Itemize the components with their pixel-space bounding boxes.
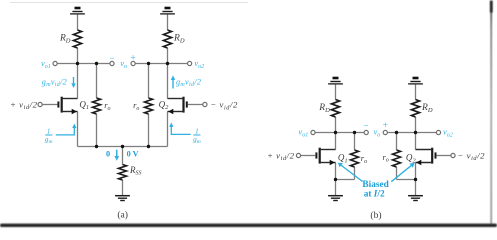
wire source-to-ro1 (b) [336, 179, 355, 181]
wire output node row left (a) [55, 63, 112, 65]
svg-text:at I/2: at I/2 [364, 189, 385, 199]
svg-text:1: 1 [47, 128, 51, 136]
label gm vid/2 with down arrow (a left) [42, 77, 76, 88]
label plus (b) [383, 121, 388, 131]
ac-ground (supply) right of (b) [408, 77, 423, 84]
wire drain Q1 (b) [335, 133, 337, 150]
wire drain Q2 (a) [167, 64, 169, 99]
junction drain1 (a) [76, 62, 79, 65]
transistor Q1 (a) [58, 97, 89, 115]
node vo+ terminal (b) [383, 130, 387, 134]
ground (a) [115, 196, 130, 201]
wire ro2 bottom (a) [148, 114, 150, 147]
input terminal -vid/2 (a) [203, 102, 207, 106]
junction drain1 (b) [334, 131, 337, 134]
node vo+ terminal (a) [131, 61, 135, 65]
ac-ground (supply) right of (a) [160, 7, 175, 14]
node vo- terminal (a) [110, 61, 114, 65]
resistor ro (b, right) [382, 150, 400, 167]
svg-text:+: + [383, 121, 388, 131]
label Biased at I/2 with arrows (b) [338, 163, 415, 200]
wire ro2 top (b) [396, 133, 398, 151]
label vo2 (b) [443, 127, 453, 139]
wire [335, 117, 337, 133]
label vo2 (a) [194, 58, 204, 70]
input terminal -vid/2 (b) [451, 153, 455, 157]
wire ro1 bottom (a) [96, 114, 98, 147]
label 0 with down arrow and 0 V (a) [106, 149, 139, 160]
resistor RD (b, right) [412, 100, 433, 118]
label minus (a) [109, 53, 114, 63]
ac-ground (supply) left of (b) [328, 77, 343, 84]
page top faint edge line [10, 2, 248, 3]
wire [167, 15, 169, 31]
wire source-to-ro2 (b) [397, 179, 416, 181]
wire gate Q2 (b) [437, 155, 451, 157]
svg-text:(a): (a) [117, 210, 128, 221]
wire drain Q1 (a) [77, 64, 79, 99]
label minus (b) [363, 121, 368, 131]
wire [167, 48, 169, 64]
junction source1 (b) [334, 178, 337, 181]
ac-ground (supply) left of (a) [70, 7, 85, 14]
junction ro2 bot (a) [147, 145, 150, 148]
transistor Q1 (b) [316, 148, 347, 166]
junction ro1 top (a) [95, 62, 98, 65]
resistor ro (a, right) [133, 98, 152, 114]
label +vid/2 (a) [10, 99, 38, 111]
label vo (a) [120, 58, 127, 70]
svg-text:−: − [363, 121, 368, 131]
junction ro1 bot (a) [95, 145, 98, 148]
wire [122, 147, 124, 165]
resistor RSS (a) [119, 165, 142, 181]
wire [335, 85, 337, 100]
svg-text:0 V: 0 V [127, 149, 139, 158]
label +vid/2 (b) [267, 150, 295, 162]
page right edge line [490, 1, 493, 225]
input terminal +vid/2 (a) [38, 102, 42, 106]
caption (a) [117, 210, 128, 221]
wire output node row right (b) [385, 132, 438, 134]
wire source Q1 (b) [335, 163, 337, 196]
node vo2 terminal (b) [436, 130, 440, 134]
label 1/gm with arrow (a left) [45, 124, 76, 146]
resistor RD (b, left) [318, 100, 339, 118]
node vo1 terminal (a) [53, 61, 57, 65]
wire source Q2 (b) [415, 163, 417, 196]
junction drain2 (a) [166, 62, 169, 65]
wire ro1 bottom (b) [354, 167, 356, 180]
resistor ro (a, left) [93, 98, 111, 114]
node vo1 terminal (b) [311, 130, 315, 134]
svg-text:gmvid/2: gmvid/2 [42, 77, 67, 88]
page bottom shadow bar [0, 224, 497, 227]
resistor RD (a, left) [59, 30, 82, 48]
svg-text:0: 0 [106, 149, 110, 158]
wire [415, 85, 417, 100]
resistor RD (a, right) [164, 30, 185, 48]
label vo (b) [374, 127, 381, 139]
svg-text:+: + [130, 54, 135, 64]
svg-text:−: − [109, 53, 114, 63]
label vo1 (a) [41, 58, 51, 70]
wire [415, 117, 417, 133]
junction drain2 (b) [414, 131, 417, 134]
svg-text:1: 1 [195, 128, 199, 136]
wire gate Q2 (a) [188, 104, 203, 106]
label 1/gm with arrow (a right) [169, 122, 201, 145]
wire source Q1 (a) [77, 112, 79, 147]
node vo2 terminal (a) [188, 61, 192, 65]
caption (b) [370, 210, 381, 221]
wire ro1 top (a) [96, 64, 98, 99]
label plus (a) [130, 54, 135, 64]
wire gate Q1 (a) [42, 104, 57, 106]
resistor ro (b, left) [351, 150, 368, 167]
junction ro2 top (a) [147, 62, 150, 65]
ground (b, right) [408, 196, 423, 201]
transistor Q2 (b) [406, 148, 436, 166]
label -vid/2 (b) [457, 150, 485, 162]
wire [77, 15, 79, 31]
svg-text:gmvid/2: gmvid/2 [176, 77, 201, 88]
wire output node row left (b) [313, 132, 366, 134]
wire source Q2 (a) [167, 112, 169, 147]
wire output node row right (a) [133, 63, 190, 65]
junction ro1 top (b) [353, 131, 356, 134]
wire gate Q1 (b) [301, 155, 316, 157]
wire [77, 48, 79, 64]
label vo1 (b) [298, 127, 308, 139]
label -vid/2 (a) [210, 100, 238, 112]
node vo- terminal (b) [364, 130, 368, 134]
wire ro1 top (b) [354, 133, 356, 151]
input terminal +vid/2 (b) [296, 153, 300, 157]
wire source node row (a) [78, 146, 168, 148]
transistor Q2 (a) [159, 97, 187, 115]
junction ro2 top (b) [395, 131, 398, 134]
wire ro2 bottom (b) [396, 167, 398, 180]
label gm vid/2 with up arrow (a right) [171, 75, 201, 88]
wire [122, 180, 124, 195]
wire ro2 top (a) [148, 64, 150, 99]
svg-text:(b): (b) [370, 210, 381, 221]
junction Rss top (a) [121, 145, 124, 148]
junction source2 (b) [414, 178, 417, 181]
ground (b, left) [328, 196, 343, 201]
wire drain Q2 (b) [415, 133, 417, 150]
